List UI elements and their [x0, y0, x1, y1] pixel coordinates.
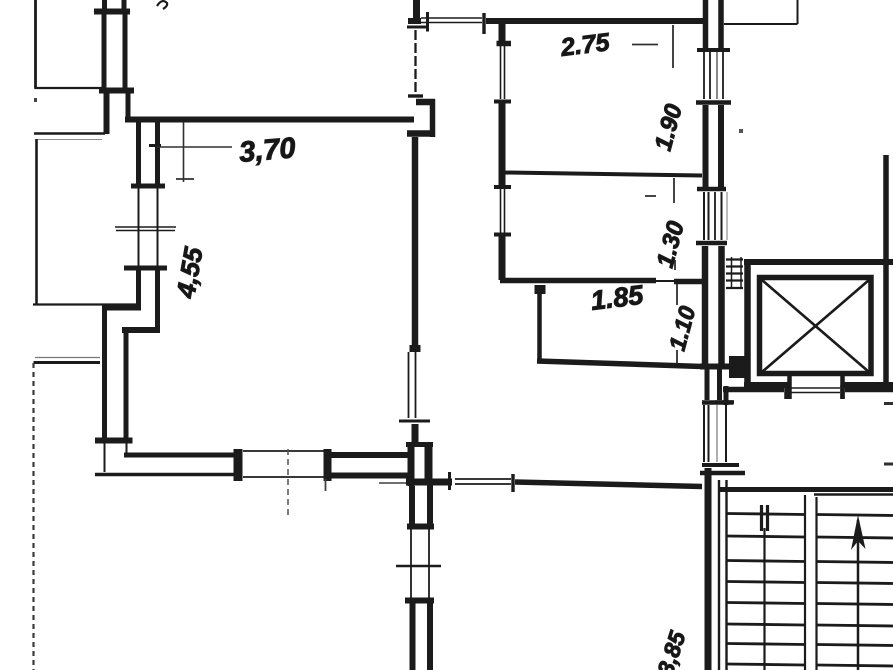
interior wall y=173 [504, 173, 702, 176]
walking line and start mark [763, 528, 765, 670]
window in bottom-center wall [455, 474, 513, 492]
bottom wall of landing [718, 487, 893, 492]
block left of elevator [729, 356, 745, 378]
stray handwriting fragment top edge [157, 1, 167, 9]
cross tick on wall [448, 472, 451, 490]
stair well lines [804, 495, 806, 670]
elevator cab square [760, 278, 872, 374]
right wall beside elevator [883, 155, 889, 392]
elevator shaft outer walls [744, 259, 893, 388]
thin dash below wall x=325 [325, 479, 327, 491]
dimension 2.75 [632, 25, 673, 68]
central wall below junction (double with window) [396, 482, 441, 670]
exterior wall left: upper double wall [94, 0, 134, 134]
elevator door jambs [790, 375, 843, 399]
svg-text:3,70: 3,70 [238, 132, 297, 169]
stair arrow [857, 520, 860, 670]
right double exterior wall x~702-724 [696, 0, 745, 670]
top wall thick from x486 to right wall [486, 18, 703, 24]
dimension 3,70 line [157, 122, 232, 182]
stair arrow head [851, 515, 866, 550]
central wall lower: cap, window, junction [399, 345, 430, 447]
dimension ticks right column [645, 178, 677, 364]
staircase [719, 480, 893, 670]
central wall top segment [407, 0, 427, 96]
bottom-right room top wall with door [715, 385, 893, 405]
landing edge line [814, 493, 893, 496]
small ink dots [34, 98, 37, 102]
long top wall of big room [125, 117, 414, 123]
jog of left wall [95, 307, 160, 472]
balcony bottom-left thin outline [33, 305, 138, 670]
door threshold hatch left of elevator [726, 257, 743, 289]
thin line left of junction [379, 482, 406, 484]
interior wall y=364 sloping [537, 361, 702, 367]
central wall solid middle [412, 137, 419, 346]
treads left flight [727, 514, 805, 666]
wall stub below y=281 wall [534, 285, 546, 363]
wall pair descending at x~138/157 [131, 122, 165, 186]
interior wall y=281 [500, 281, 702, 282]
window in left wall (double thin) [115, 188, 176, 268]
bottom-center wall sloping right [515, 482, 702, 487]
wall x=502 (divider) with two windows [494, 18, 511, 280]
wall below window [139, 270, 158, 330]
treads right flight [817, 515, 893, 667]
dashed extension x=288 [287, 449, 289, 518]
thin rect top right [724, 0, 798, 24]
balcony top-left thin outline [34, 0, 105, 304]
wall junction block center [406, 445, 452, 487]
bottom wall of big left room [95, 449, 411, 481]
elevator X diagonals [762, 280, 869, 372]
pillar block with pocket (central wall) [407, 99, 435, 137]
window band on top wall between central wall and x=486 [408, 12, 484, 34]
dimension dashes right edge [884, 404, 893, 465]
